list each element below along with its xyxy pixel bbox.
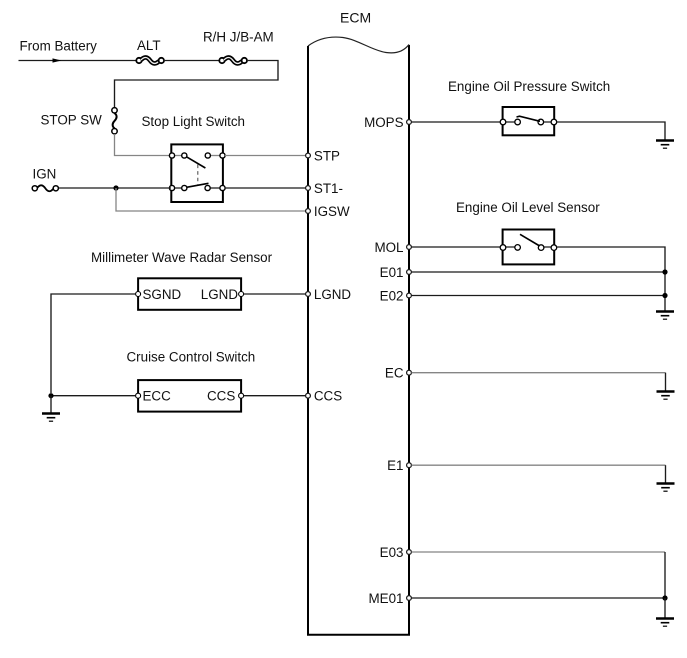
ECM box [308, 37, 409, 635]
svg-text:STOP SW: STOP SW [41, 113, 103, 128]
pin STP [306, 153, 311, 158]
fusible link R/H J/B-AM [219, 57, 247, 63]
ground MOL bus [656, 312, 674, 320]
svg-text:LGND: LGND [201, 287, 239, 302]
wire switch to ground MOPS [557, 122, 665, 140]
svg-text:From Battery: From Battery [20, 39, 98, 54]
svg-text:Stop Light Switch: Stop Light Switch [142, 114, 245, 129]
oil pressure switch box [503, 107, 555, 135]
svg-text:ALT: ALT [137, 38, 161, 53]
IGN fuse [32, 185, 58, 191]
oil level sensor box [503, 230, 555, 265]
ground EC [657, 392, 675, 400]
svg-text:E01: E01 [380, 265, 404, 280]
wire MOL to sensor [412, 246, 503, 248]
wire E03 [412, 551, 666, 553]
wire ME01 [412, 597, 666, 599]
svg-text:ME01: ME01 [369, 591, 404, 606]
wire SGND to ground bus [51, 294, 136, 393]
fuse STOP SW [112, 108, 117, 134]
svg-text:R/H J/B-AM: R/H J/B-AM [203, 30, 274, 45]
svg-text:E02: E02 [380, 288, 404, 303]
wire ECC to ground bus [51, 395, 136, 397]
svg-text:E03: E03 [380, 545, 404, 560]
wire sensor to ground bus MOL [557, 247, 665, 311]
wire LGND to ECM [244, 293, 308, 295]
wire STOP SW to stop light switch [115, 134, 172, 156]
radar box pin circles [136, 292, 141, 297]
ground ME01 [656, 619, 674, 627]
svg-text:CCS: CCS [314, 388, 342, 403]
ground E1 [657, 484, 675, 492]
junction ground bus [48, 393, 53, 398]
wire ST1- to ECM [225, 187, 308, 189]
svg-text:LGND: LGND [314, 287, 352, 302]
svg-text:MOL: MOL [374, 240, 403, 255]
stop light switch contacts bottom row [169, 183, 225, 190]
wire E02 [412, 295, 666, 297]
stop light switch dashed link [197, 165, 199, 186]
svg-text:CCS: CCS [207, 388, 235, 403]
wire between fuses [164, 60, 221, 62]
junction ME01 [662, 595, 667, 600]
svg-text:ST1-: ST1- [314, 181, 343, 196]
svg-text:EC: EC [385, 366, 404, 381]
svg-text:SGND: SGND [143, 287, 182, 302]
fusible link ALT [136, 57, 164, 63]
oil level sensor contacts [500, 234, 557, 250]
svg-text:ECC: ECC [143, 388, 172, 403]
wire EC [412, 372, 666, 374]
junction E01 [662, 269, 667, 274]
pin CCS [306, 393, 311, 398]
wire E1 [412, 464, 666, 466]
svg-text:IGN: IGN [33, 167, 57, 182]
junction E02 [662, 293, 667, 298]
svg-text:Engine Oil Pressure Switch: Engine Oil Pressure Switch [448, 79, 610, 94]
svg-text:E1: E1 [387, 458, 403, 473]
svg-text:Millimeter Wave Radar Sensor: Millimeter Wave Radar Sensor [91, 250, 273, 265]
wire from battery [19, 58, 137, 62]
radar sensor box [138, 278, 241, 310]
svg-text:Cruise Control Switch: Cruise Control Switch [127, 349, 256, 364]
cruise box pin circles [136, 393, 141, 398]
stop light switch contacts top row [169, 153, 225, 168]
wire junction to ground ME01 [664, 598, 666, 618]
svg-text:IGSW: IGSW [314, 204, 350, 219]
wire STP to ECM [225, 155, 308, 157]
pin LGND [306, 292, 311, 297]
wire IGN to switch [59, 187, 171, 189]
svg-text:MOPS: MOPS [364, 115, 404, 130]
wire IGSW branch [116, 188, 308, 211]
cruise control box [138, 380, 241, 412]
ground MOPS [656, 141, 674, 149]
wire MOPS to switch [412, 121, 503, 123]
oil pressure switch contacts [500, 116, 557, 125]
wire E01 [412, 271, 666, 273]
stop light switch box [171, 144, 223, 202]
wire CCS to ECM [244, 395, 308, 397]
wire junction to ground [50, 396, 52, 413]
pin ST1- [306, 186, 311, 191]
pin IGSW [306, 209, 311, 214]
junction IGN [113, 185, 118, 190]
wire fuse to corner [115, 61, 279, 108]
svg-text:Engine Oil Level Sensor: Engine Oil Level Sensor [456, 200, 600, 215]
svg-text:STP: STP [314, 148, 340, 163]
svg-text:ECM: ECM [340, 10, 371, 26]
ground left [42, 414, 60, 422]
